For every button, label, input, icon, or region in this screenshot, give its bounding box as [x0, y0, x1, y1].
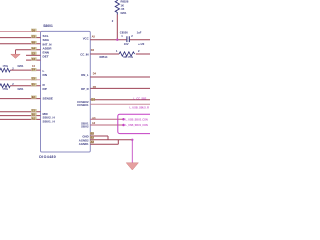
svg-text:B4: B4: [92, 98, 96, 102]
svg-text:L_USB_SBU1_CON: L_USB_SBU1_CON: [126, 124, 148, 127]
svg-text:0201: 0201: [18, 87, 24, 91]
svg-text:AGND1: AGND1: [79, 142, 89, 146]
svg-text:D4: D4: [93, 72, 97, 76]
svg-text:L_USB_SBU2_R: L_USB_SBU2_R: [130, 106, 150, 109]
svg-text:R8528: R8528: [121, 0, 129, 3]
svg-text:D5: D5: [93, 85, 97, 89]
svg-text:A2: A2: [91, 140, 95, 144]
svg-text:+/-20: +/-20: [138, 42, 145, 46]
svg-text:±5%: ±5%: [3, 87, 9, 91]
svg-text:L_CC_SB2: L_CC_SB2: [134, 98, 147, 101]
svg-text:±5%: ±5%: [3, 64, 9, 68]
svg-text:DP: DP: [43, 87, 47, 91]
svg-text:B2: B2: [91, 135, 95, 139]
svg-text:C8526: C8526: [120, 30, 128, 34]
svg-text:0R ±5%: 0R ±5%: [123, 55, 133, 59]
svg-text:A3: A3: [92, 116, 96, 120]
svg-text:CCSBU1: CCSBU1: [77, 103, 89, 107]
svg-text:1K: 1K: [121, 3, 124, 7]
svg-text:DN: DN: [43, 73, 48, 77]
svg-text:R8514: R8514: [100, 55, 108, 59]
svg-text:VCC: VCC: [83, 36, 89, 40]
svg-text:B5: B5: [91, 131, 95, 135]
svg-text:SENSE: SENSE: [43, 96, 54, 100]
svg-text:L_USB_SBU2_CON: L_USB_SBU2_CON: [126, 118, 148, 121]
svg-text:DP_R: DP_R: [81, 87, 88, 91]
svg-text:0201: 0201: [18, 64, 24, 68]
svg-text:SBU2: SBU2: [81, 125, 89, 129]
svg-text:DET: DET: [43, 55, 49, 59]
svg-text:DIO4480: DIO4480: [39, 155, 56, 159]
svg-text:10V: 10V: [124, 42, 129, 46]
svg-text:SBU1_H: SBU1_H: [43, 119, 56, 123]
svg-text:1uF: 1uF: [137, 30, 142, 34]
svg-text:DN_L: DN_L: [81, 73, 89, 77]
svg-text:D2: D2: [91, 48, 95, 52]
svg-text:A5: A5: [92, 35, 96, 39]
svg-text:.05: .05: [121, 7, 125, 11]
svg-text:0201: 0201: [121, 11, 127, 15]
svg-text:CC_IN: CC_IN: [80, 52, 88, 56]
svg-text:S8601: S8601: [43, 24, 53, 28]
svg-text:A2: A2: [92, 121, 96, 125]
